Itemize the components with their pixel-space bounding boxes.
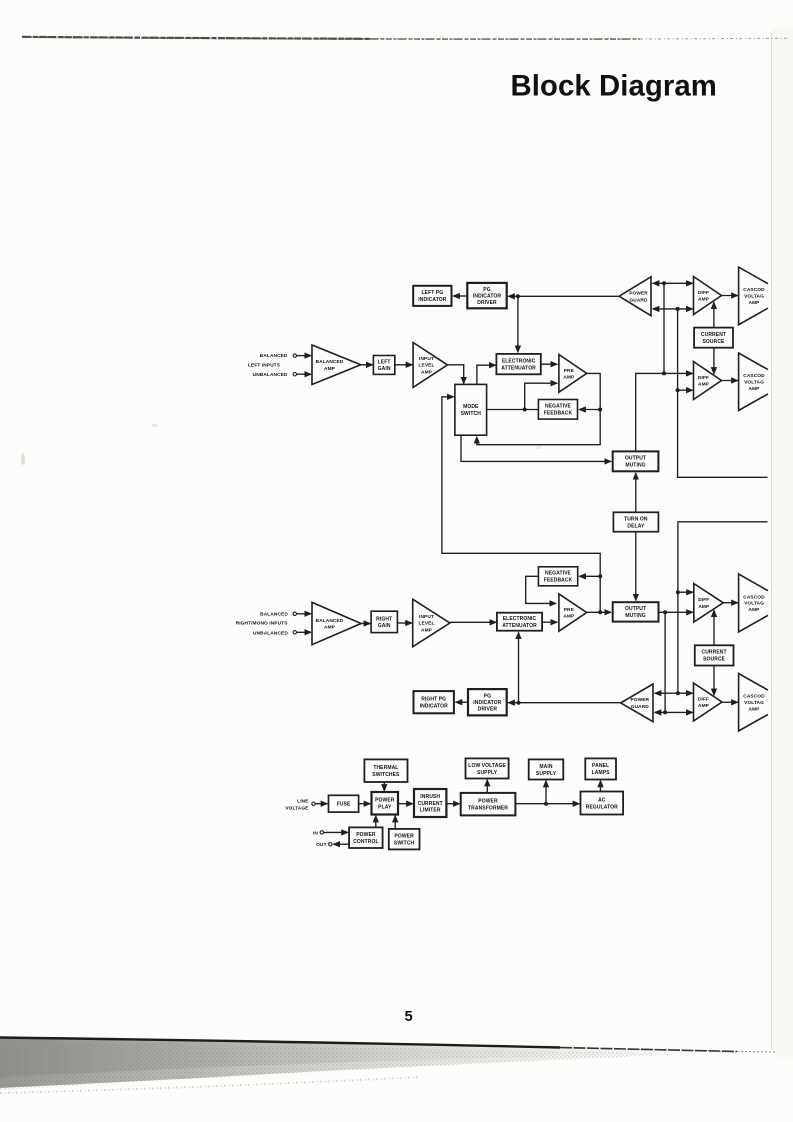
terminal: right unbalanced input [293,631,296,634]
op-amp: DIFF AMP 3 (right ch) [694,584,723,623]
svg-text:INRUSH: INRUSH [420,794,440,800]
svg-text:VOLTAG: VOLTAG [744,700,764,706]
svg-text:AMP: AMP [749,300,761,306]
svg-text:DRIVER: DRIVER [478,707,498,713]
amp: POWER GUARD (left ch) [619,277,651,316]
amp: CASCODE VOLTAGE AMP 1 (left ch) [739,267,768,325]
block: NEGATIVE FEEDBACK (right ch) [538,567,577,586]
svg-text:VOLTAG: VOLTAG [744,294,764,300]
block: ELECTRONIC ATTENUATOR (left ch) [496,354,540,374]
svg-text:CASCOD: CASCOD [743,694,765,700]
svg-text:MAIN: MAIN [539,764,552,770]
block: POWER SWITCH [389,829,420,850]
svg-text:SUPPLY: SUPPLY [477,770,498,776]
svg-text:MODE: MODE [463,404,479,410]
svg-text:VOLTAG: VOLTAG [744,380,764,386]
svg-text:DELAY: DELAY [627,523,645,529]
wire: power guard sense line (right ch) [508,702,621,704]
wire: mode switch top to electronic attenuator [477,365,496,384]
junction: bottom link tap (left ch) [676,307,680,311]
svg-text:FEEDBACK: FEEDBACK [544,578,573,584]
svg-text:CURRENT: CURRENT [702,650,727,656]
svg-text:LEFT INPUTS: LEFT INPUTS [248,363,281,369]
svg-text:MUTING: MUTING [625,463,645,469]
wire: diff amp 1 to cascode 1 [722,295,738,297]
wire: gain reduction to attenuator (right ch) [518,632,520,702]
block: PG INDICATOR DRIVER (right ch) [468,689,507,715]
block: MODE SWITCH [455,384,487,435]
wire: mode switch to negative feedback (left ch) [487,409,539,411]
junction: feedback tap (left ch) [523,408,527,412]
terminal: right balanced input [293,612,296,615]
wire: ac regulator to panel lamps [600,781,602,792]
junction: bottom link tap (right ch) [663,710,667,714]
svg-text:OUTPUT: OUTPUT [625,606,646,612]
svg-text:NEGATIVE: NEGATIVE [545,571,572,577]
svg-text:PLAY: PLAY [378,805,392,811]
svg-text:AMP: AMP [324,625,336,631]
wire: line voltage to fuse [315,803,327,805]
svg-text:SOURCE: SOURCE [703,339,726,345]
wire: loop into negative feedback right edge (left ch) [579,409,600,411]
block: CURRENT SOURCE (right ch) [695,645,734,665]
svg-text:RIGHT/MONO INPUTS: RIGHT/MONO INPUTS [236,621,289,627]
wire: fuse to power relay [359,803,371,805]
block: OUTPUT MUTING (left ch) [613,451,659,471]
svg-text:AMP: AMP [698,297,710,303]
wire: transformer to low voltage supply [486,780,488,793]
svg-text:CASCOD: CASCOD [743,594,765,600]
block: TURN ON DELAY [613,512,658,531]
svg-text:VOLTAGE: VOLTAGE [285,805,309,811]
svg-text:LEVEL: LEVEL [419,363,435,369]
svg-text:LEVEL: LEVEL [419,621,435,627]
junction: diff amp 2 input tap (left ch) [676,388,680,392]
svg-text:AMP: AMP [324,366,336,372]
svg-text:INDICATOR: INDICATOR [473,293,502,299]
svg-text:RIGHT PG: RIGHT PG [421,697,446,703]
junction: diff amp 3 input tap [676,590,680,594]
op-amp: DIFF AMP 1 (left ch) [694,277,722,315]
block: POWER CONTROL [349,827,383,848]
svg-text:TRANSFORMER: TRANSFORMER [468,805,508,811]
wire: loop into negative feedback right edge (right ch) [579,575,600,577]
block: ELECTRONIC ATTENUATOR (right ch) [497,613,542,631]
svg-text:GUARD: GUARD [631,704,650,710]
block: POWER TRANSFORMER [461,793,516,816]
svg-text:ATTENUATOR: ATTENUATOR [502,623,537,629]
wire: balanced amp to left gain [361,364,373,366]
svg-text:AMP: AMP [698,703,710,709]
svg-text:LAMPS: LAMPS [592,770,611,776]
svg-text:AMP: AMP [698,382,710,388]
svg-text:GUARD: GUARD [629,298,648,304]
svg-text:AC: AC [598,797,606,803]
amp: CASCODE VOLTAGE AMP 4 (right ch) [739,674,768,732]
wire: power guard / diff amp top link (right ch) [655,692,693,694]
junction: mono link to negative feedback (right ch) [598,574,602,578]
wire: left unbalanced input to balanced amp [297,373,311,375]
svg-text:DIFF: DIFF [698,597,709,603]
svg-text:PRE: PRE [564,368,575,374]
svg-text:GAIN: GAIN [378,366,391,372]
amp: POWER GUARD (right ch) [621,684,653,722]
block: RIGHT GAIN [371,611,397,632]
terminal: line voltage [312,802,315,805]
wire: driver to left pg indicator [453,295,467,297]
svg-text:AMP: AMP [749,607,761,613]
svg-text:IN: IN [313,830,318,836]
svg-text:INDICATOR: INDICATOR [420,704,449,710]
wire: output muting to diff amp 3 [659,611,693,613]
wire: transformer to ac regulator [515,803,579,805]
svg-text:SWITCH: SWITCH [394,840,415,846]
terminal: remote out [329,843,332,846]
svg-text:CONTROL: CONTROL [353,839,378,845]
block: OUTPUT MUTING (right ch) [613,602,659,621]
wire: inrush limiter to power transformer [446,803,459,805]
block: RIGHT PG INDICATOR [414,691,454,713]
svg-text:DIFF: DIFF [698,290,709,296]
svg-text:AMP: AMP [698,604,710,610]
svg-text:BALANCED: BALANCED [260,611,288,617]
svg-text:OUTPUT: OUTPUT [625,456,646,462]
wire: power guard / diff amp bottom link (right ch) [655,711,693,713]
block: FUSE [329,795,359,812]
svg-text:AMP: AMP [749,386,761,392]
svg-text:THERMAL: THERMAL [373,765,398,771]
wire: turn on delay to upper output muting [635,473,637,512]
svg-text:BALANCED: BALANCED [316,618,344,624]
wire: input level amp to attenuator (right ch) [450,621,496,623]
block: MAIN SUPPLY [529,759,564,779]
svg-text:VOLTAG: VOLTAG [744,601,764,607]
svg-text:AMP: AMP [421,627,433,633]
wire: right unbalanced input to balanced amp [297,631,311,633]
wire: negative feedback to pre amp input (right ch) [526,576,556,603]
svg-text:FEEDBACK: FEEDBACK [544,411,573,417]
svg-text:AMP: AMP [563,614,575,620]
amp: CASCODE VOLTAGE AMP 3 (right ch) [739,574,768,632]
svg-text:PANEL: PANEL [592,763,609,769]
op-amp: INPUT LEVEL AMP (right ch) [413,599,450,647]
svg-text:CASCOD: CASCOD [743,287,765,293]
wire: turn on delay to lower output muting [635,532,637,601]
wire: current source to diff amp 1 [713,302,715,327]
wire: pre amp to output muting (right ch) [587,611,611,613]
op-amp: PRE AMP (left ch) [559,355,587,393]
svg-text:INDICATOR: INDICATOR [473,700,502,706]
block: THERMAL SWITCHES [364,759,407,782]
svg-text:LEFT PG: LEFT PG [421,290,443,296]
svg-text:PRE: PRE [564,607,575,613]
svg-text:POWER: POWER [629,290,648,296]
wire: vertical bus x665 (right ch) [664,612,666,712]
op-amp: BALANCED AMP (left ch) [312,345,361,385]
svg-text:UNBALANCED: UNBALANCED [253,630,288,636]
wire: in to power control [324,831,348,833]
svg-text:INPUT: INPUT [419,356,434,362]
wire: pre amp output feedback loop (left ch) [477,373,600,444]
svg-text:DIFF: DIFF [698,696,709,702]
wire: driver to right pg indicator [456,701,468,703]
svg-text:DRIVER: DRIVER [477,300,497,306]
wire: vertical bus x677 to output line (left ch) [678,309,768,477]
svg-text:INDICATOR: INDICATOR [418,297,447,303]
terminal: left balanced input [293,354,296,357]
wire: current source to diff amp 2 [713,348,715,374]
wire: right preamp output to mode switch (mono link) [442,397,600,613]
block: PANEL LAMPS [585,758,616,779]
svg-text:Block Diagram: Block Diagram [511,70,717,103]
svg-text:PG: PG [483,287,490,293]
svg-text:BALANCED: BALANCED [316,359,344,365]
wire: current source to diff amp 4 [713,666,715,696]
wire: bus to diff amp 3 input [678,591,693,593]
svg-text:SWITCH: SWITCH [461,411,482,417]
wire: balanced amp to right gain [361,623,370,625]
svg-text:LEFT: LEFT [378,359,391,365]
wire: power control to power relay [375,816,377,828]
wire: gain reduction to attenuator (left ch) [517,296,519,352]
wire: power guard / diff amp top link (left ch) [653,282,693,284]
wire: diff amp 2 to cascode 2 [722,380,738,382]
wire: mode switch to output muting (left ch) [461,435,611,461]
svg-text:MUTING: MUTING [625,613,645,619]
wire: thermal switches to power relay [383,782,385,791]
block: AC REGULATOR [581,792,624,815]
wire: diff amp 4 to cascode 4 [722,701,738,703]
wire: bus to diff amp 2 input (left ch) [678,389,693,391]
op-amp: INPUT LEVEL AMP (left ch) [413,343,447,388]
svg-text:DIFF: DIFF [698,375,709,381]
junction: signal line tap at x664 (left ch) [662,371,666,375]
junction: power guard line tap (left ch) [516,294,520,298]
wire: power control to out [333,843,349,845]
svg-text:INPUT: INPUT [419,614,434,620]
svg-text:SOURCE: SOURCE [703,657,726,663]
wire: feedback to pre amp inverting input (left ch) [525,383,558,409]
block: INRUSH CURRENT LIMITER [414,789,446,817]
wire: output line and bus x678 (right ch) [678,522,768,693]
svg-text:POWER: POWER [630,697,649,703]
junction: power guard line tap (right ch) [517,701,521,705]
svg-text:POWER: POWER [394,833,414,839]
wire: left gain to input level amp [395,364,413,366]
wire: current source to diff amp 3 [713,610,715,645]
wire: input level amp to mode switch [448,365,464,384]
op-amp: DIFF AMP 4 (right ch) [694,683,723,721]
junction: main supply tap [544,802,548,806]
svg-text:POWER: POWER [375,798,395,804]
svg-text:ELECTRONIC: ELECTRONIC [502,358,536,364]
svg-text:CURRENT: CURRENT [418,801,443,807]
svg-text:SWITCHES: SWITCHES [372,772,400,778]
svg-text:LIMITER: LIMITER [420,807,441,813]
svg-text:RIGHT: RIGHT [376,616,392,622]
block: POWER RELAY [372,792,399,815]
terminal: left unbalanced input [293,373,296,376]
junction: top link tap (right ch) [676,691,680,695]
wire: power switch to power relay [394,816,396,829]
svg-text:OUT: OUT [316,842,326,848]
svg-text:PG: PG [484,694,491,700]
svg-text:5: 5 [405,1009,413,1025]
junction: feedback to negative feedback box (left ch) [598,408,602,412]
amp: CASCODE VOLTAGE AMP 2 (left ch) [739,353,768,411]
svg-text:REGULATOR: REGULATOR [586,804,618,810]
op-amp: PRE AMP (right ch) [559,594,587,631]
wire: right gain to input level amp [397,622,412,624]
junction: top link tap (left ch) [662,281,666,285]
wire: attenuator to pre amp (left ch) [541,363,557,365]
block: NEGATIVE FEEDBACK (left ch) [538,400,577,420]
wire: attenuator to pre amp (right ch) [542,621,557,623]
block: CURRENT SOURCE (left ch) [694,328,733,348]
wire: power guard sense line (left ch) [508,295,619,297]
wire: power guard / diff amp bottom link (left ch) [653,308,693,310]
svg-text:AMP: AMP [749,706,761,712]
block: PG INDICATOR DRIVER (left ch) [467,283,506,308]
wire: power relay to inrush limiter [398,803,413,805]
svg-text:FUSE: FUSE [337,802,351,808]
svg-text:CURRENT: CURRENT [701,332,726,338]
block: LOW VOLTAGE SUPPLY [466,758,509,778]
wire: tap to main supply [545,781,547,804]
op-amp: BALANCED AMP (right ch) [312,602,361,644]
junction: mono link tap at preamp output [598,610,602,614]
wire: output muting up to diff amp line (left ch) [636,373,693,451]
svg-text:UNBALANCED: UNBALANCED [253,372,288,378]
svg-text:LOW VOLTAGE: LOW VOLTAGE [468,763,506,769]
svg-text:SUPPLY: SUPPLY [536,771,557,777]
wire: diff amp 3 to cascode 3 [723,602,738,604]
terminal: remote in [320,831,323,834]
op-amp: DIFF AMP 2 (left ch) [694,362,722,400]
svg-text:AMP: AMP [563,374,575,380]
svg-text:LINE: LINE [297,798,309,804]
svg-text:AMP: AMP [421,369,433,375]
block: LEFT PG INDICATOR [413,286,451,306]
junction: muting output tap x665 (right ch) [663,610,667,614]
svg-text:CASCOD: CASCOD [743,373,765,379]
svg-text:TURN ON: TURN ON [624,516,648,522]
svg-text:BALANCED: BALANCED [260,353,288,359]
block: LEFT GAIN [373,356,394,375]
svg-text:NEGATIVE: NEGATIVE [545,404,572,410]
svg-text:GAIN: GAIN [378,623,391,629]
svg-text:ATTENUATOR: ATTENUATOR [501,365,536,371]
wire: left balanced input to balanced amp [297,355,311,357]
wire: right balanced input to balanced amp [297,613,311,615]
svg-text:POWER: POWER [478,798,498,804]
svg-text:ELECTRONIC: ELECTRONIC [503,616,537,622]
wire: vertical bus x664 (left ch) [663,283,665,373]
svg-text:POWER: POWER [356,832,376,838]
